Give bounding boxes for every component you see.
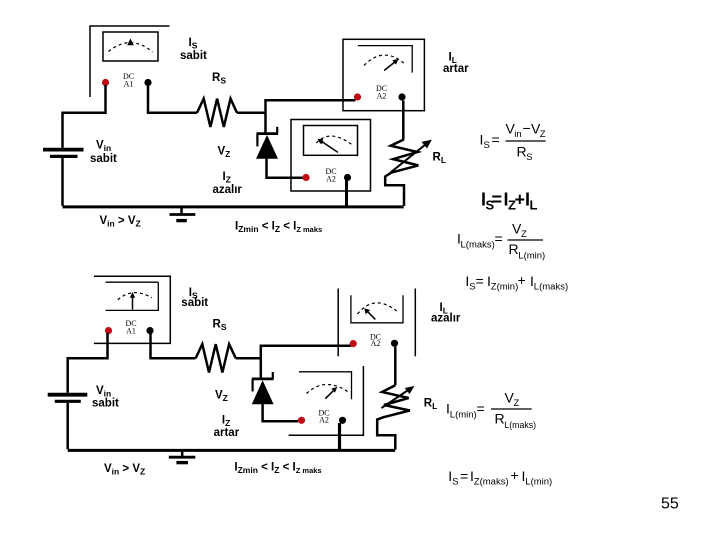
wire: voltmeter U5 - terminal to bus: [338, 423, 341, 450]
node: ammeter U6 - terminal: [391, 340, 398, 347]
svg-text:artar: artar: [214, 427, 240, 439]
battery V1 negative plate: [50, 155, 78, 158]
svg-text:sabit: sabit: [180, 50, 207, 62]
ammeter U3 scale arc: [364, 55, 406, 65]
variable resistor RL (top) arrow: [391, 145, 426, 173]
zener diode D2 cathode bar: [252, 377, 274, 380]
ground (top) bar 1: [170, 213, 196, 216]
wire: U1 + terminal down and left to battery: [63, 85, 106, 148]
svg-text:A2: A2: [326, 175, 336, 184]
wire: U3 - terminal down to RL: [402, 101, 405, 140]
wire: U4 - terminal to resistor RS (bottom): [151, 333, 196, 358]
zener diode D2 cathode right bend: [272, 372, 274, 379]
ammeter U3 (IL, top) outer box: [343, 39, 424, 110]
wire: U1 - terminal to resistor RS: [148, 85, 197, 113]
voltmeter U5 (bottom) outer box: [289, 366, 364, 435]
ammeter U6 outer box right edge: [414, 289, 416, 357]
wire: U4 + terminal down and left to battery: [68, 333, 108, 393]
ground (bottom) bar 2: [176, 461, 188, 464]
wire: zener anode to voltmeter + terminal (bottom): [263, 404, 298, 421]
wire: voltmeter - terminal to bus: [345, 180, 348, 207]
variable resistor RL (bottom) arrow: [382, 390, 410, 409]
zener diode D1 anode triangle: [256, 135, 278, 159]
ammeter U1 display window: [103, 32, 158, 61]
ammeter U3 display frame: [358, 46, 412, 73]
battery V2 positive plate: [48, 393, 88, 397]
ammeter U4 needle: [132, 296, 134, 310]
zener diode D1 cathode right bend: [276, 127, 278, 134]
voltmeter U5 needle arrowhead: [331, 387, 337, 393]
wire: battery negative down to bus (bottom): [66, 403, 69, 449]
variable resistor RL (top): [385, 139, 418, 206]
formula 1: IS = (Vin - VZ)/RS: [480, 120, 546, 163]
formula 3: IL(maks) = VZ / RL(min): [457, 221, 545, 262]
ammeter U6 needle arrowhead: [364, 308, 370, 314]
variable resistor RL (bottom): [377, 385, 410, 449]
ammeter U6 (IL, bottom) outer box left edge: [337, 289, 339, 357]
wire: zener node up and right to IL ammeter + terminal: [266, 100, 356, 132]
voltmeter U2 display window: [304, 126, 358, 156]
voltmeter U2 pivot dot: [320, 140, 324, 144]
voltmeter U2 (top) outer box: [291, 120, 371, 192]
svg-text:Vin > VZ: Vin > VZ: [104, 463, 145, 477]
node: voltmeter U2 + terminal: [302, 174, 309, 181]
zener diode D2 anode triangle: [252, 380, 274, 404]
wire: zener node up and right to IL ammeter + terminal (bottom): [261, 346, 351, 379]
ammeter U4 needle arrowhead: [130, 292, 135, 298]
wire: U6 - terminal down to RL (bottom): [394, 347, 397, 385]
svg-text:A1: A1: [124, 80, 134, 89]
node: ammeter U1 - terminal: [144, 79, 151, 86]
ammeter U6 display frame: [351, 295, 403, 323]
zener diode D1 cathode bar: [257, 132, 279, 135]
voltmeter U5 needle: [325, 391, 333, 399]
variable resistor RL (bottom) arrowhead: [405, 386, 415, 394]
ammeter U6 needle: [368, 312, 376, 320]
ground (top) bar 2: [176, 219, 187, 222]
ammeter U4 (DC A1, bottom) outer frame: [94, 276, 170, 343]
wire: RS to zener node (bottom): [236, 357, 261, 360]
voltmeter U2 needle arrowhead: [318, 139, 324, 144]
node: voltmeter U5 - terminal: [339, 417, 346, 424]
wire: bottom bus (bottom circuit): [68, 449, 396, 452]
node: ammeter U1 + terminal: [102, 79, 109, 86]
ground (bottom) stem: [181, 450, 184, 456]
node: ammeter U3 - terminal: [398, 93, 405, 100]
svg-text:A2: A2: [371, 339, 381, 348]
ammeter U6 scale arc: [358, 303, 399, 314]
zener diode D2 cathode left bend: [252, 379, 254, 392]
svg-text:sabit: sabit: [181, 297, 208, 309]
ammeter U1 (DC A1, top) outer frame: [90, 26, 170, 97]
svg-text:sabit: sabit: [92, 398, 119, 410]
zener diode D1 cathode left bend: [256, 134, 258, 147]
wire: RS to zener node: [237, 112, 266, 115]
svg-text:azalır: azalır: [431, 313, 461, 325]
svg-text:A2: A2: [319, 416, 329, 425]
node: ammeter U4 - terminal: [146, 327, 153, 334]
battery V1 positive plate: [43, 148, 84, 152]
resistor RS (top): [197, 99, 237, 127]
node: voltmeter U2 - terminal: [344, 174, 351, 181]
svg-text:sabit: sabit: [90, 153, 117, 165]
node: ammeter U3 + terminal: [354, 93, 361, 100]
svg-text:55: 55: [661, 496, 679, 513]
voltmeter U5 display frame: [299, 372, 352, 400]
node: ammeter U4 + terminal: [105, 327, 112, 334]
wire: battery negative down to bus: [61, 158, 64, 206]
svg-text:azalır: azalır: [213, 184, 243, 196]
ground (top) stem: [180, 207, 183, 214]
voltmeter U2 scale arc: [316, 136, 351, 144]
svg-text:A1: A1: [126, 327, 136, 336]
ammeter U3 needle arrowhead: [392, 59, 398, 65]
ammeter U1 needle pointer: [127, 39, 134, 46]
ammeter U4 scale arc: [118, 293, 152, 300]
svg-text:A2: A2: [377, 92, 387, 101]
ammeter U1 scale arc: [109, 43, 153, 52]
wire: bottom bus (top circuit): [63, 205, 404, 208]
battery V2 negative plate: [55, 400, 81, 403]
resistor RS (bottom): [196, 344, 236, 372]
svg-text:artar: artar: [443, 63, 469, 75]
node: voltmeter U5 + terminal: [298, 417, 305, 424]
svg-text:Vin > VZ: Vin > VZ: [100, 215, 141, 229]
variable resistor RL (top) arrowhead: [422, 140, 432, 149]
voltmeter U5 scale arc: [307, 384, 348, 393]
node: ammeter U6 + terminal: [350, 340, 357, 347]
ammeter U3 needle: [384, 62, 394, 70]
voltmeter U2 needle: [323, 142, 338, 152]
ground (bottom) bar 1: [169, 456, 196, 459]
ammeter U4 display window: [106, 282, 159, 310]
wire: zener anode to voltmeter + terminal: [267, 159, 303, 178]
formula 5: IL(min) = VZ / RL(maks): [446, 390, 536, 431]
